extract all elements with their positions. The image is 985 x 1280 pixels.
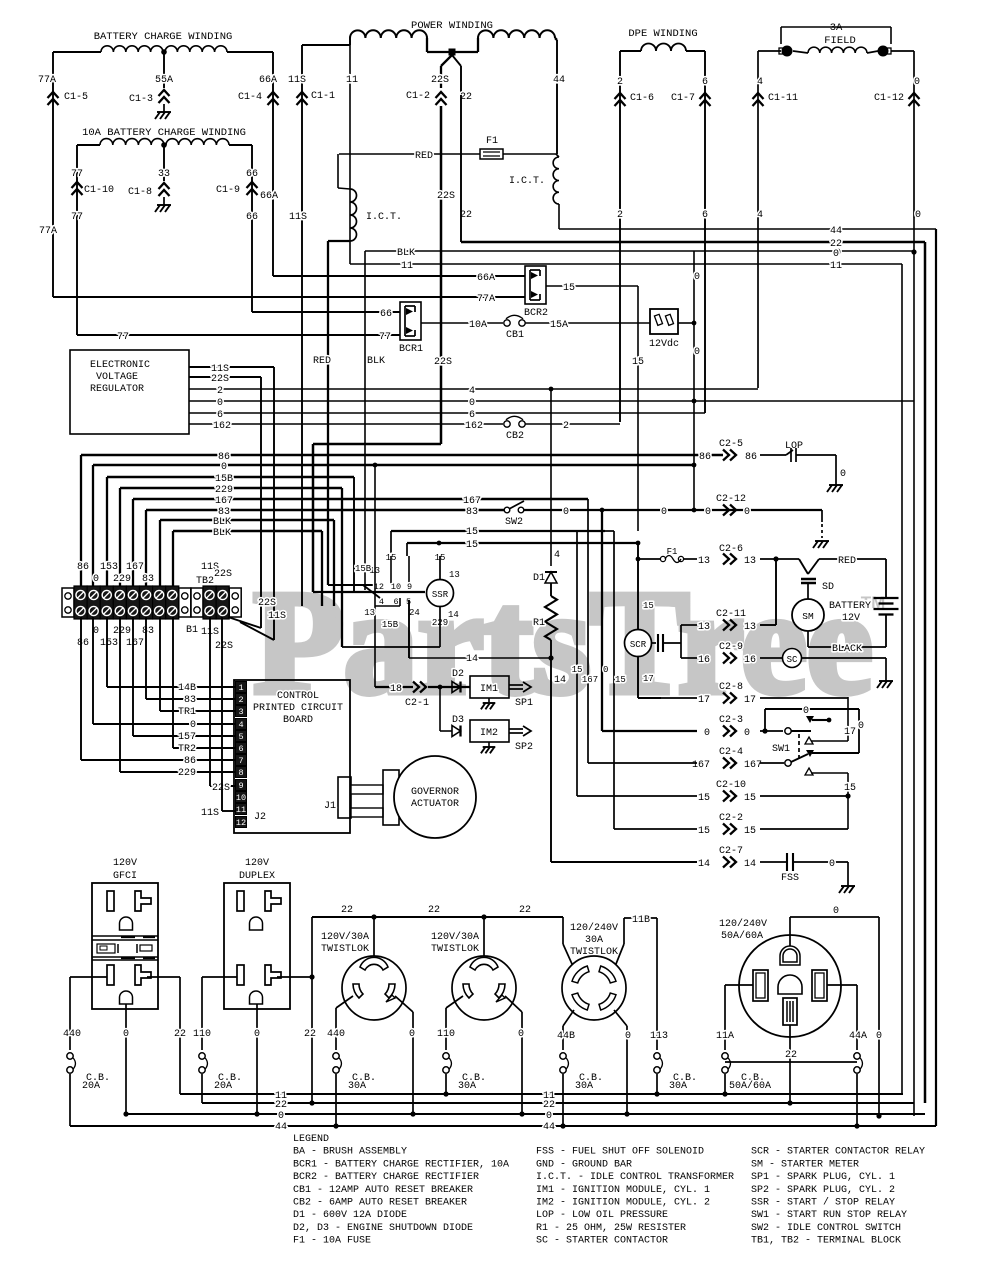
- svg-text:83: 83: [142, 626, 154, 637]
- wire 0 from 50A top: [789, 917, 791, 946]
- svg-text:J2: J2: [254, 812, 266, 823]
- svg-text:66A: 66A: [259, 75, 277, 86]
- wire 15 stub: [605, 530, 614, 532]
- svg-text:0: 0: [563, 507, 569, 518]
- svg-text:11A: 11A: [716, 1031, 734, 1042]
- svg-text:C1-10: C1-10: [84, 185, 114, 196]
- bus 15 upper: [391, 530, 605, 532]
- governor actuator linkage: [351, 785, 383, 794]
- svg-text:0: 0: [833, 249, 839, 260]
- wire 6 DPE right: [704, 51, 706, 413]
- rectifier BCR1: [400, 302, 421, 340]
- receptacle 120/240V 50A/60A body: [739, 935, 841, 1037]
- wire 15 from BCR2: [546, 285, 638, 287]
- svg-text:BCR1 - BATTERY CHARGE RECTIFIE: BCR1 - BATTERY CHARGE RECTIFIER, 10A: [293, 1159, 509, 1170]
- wire 17 from SCR to C2-8: [637, 657, 639, 699]
- svg-text:C2-2: C2-2: [719, 813, 743, 824]
- svg-text:33: 33: [158, 169, 170, 180]
- svg-text:66A: 66A: [477, 273, 495, 284]
- wire 4 to D1: [550, 389, 552, 566]
- svg-text:14B: 14B: [178, 683, 196, 694]
- svg-text:C1-5: C1-5: [64, 92, 88, 103]
- svg-text:77: 77: [71, 169, 83, 180]
- svg-text:D3: D3: [452, 715, 464, 726]
- svg-text:C1-12: C1-12: [874, 93, 904, 104]
- svg-text:BATTERY: BATTERY: [829, 601, 871, 612]
- svg-text:55A: 55A: [155, 75, 173, 86]
- svg-text:LOP - LOW OIL PRESSURE: LOP - LOW OIL PRESSURE: [536, 1210, 668, 1221]
- svg-text:15: 15: [466, 540, 478, 551]
- wire BLK fan 1: [160, 519, 334, 521]
- svg-text:120V: 120V: [113, 858, 137, 869]
- wire 0 from twistlok 3: [614, 1010, 627, 1026]
- svg-text:44: 44: [275, 1122, 287, 1133]
- svg-text:C1-11: C1-11: [768, 93, 798, 104]
- connector C1-10: [72, 182, 83, 188]
- wire 22 from GFCI: [147, 976, 180, 978]
- svg-text:I.C.T. - IDLE CONTROL TRANSFOR: I.C.T. - IDLE CONTROL TRANSFORMER: [536, 1172, 734, 1183]
- svg-text:7: 7: [238, 756, 243, 766]
- bus 22 receptacles: [312, 916, 563, 918]
- svg-text:167: 167: [582, 675, 598, 685]
- wire 83 fan with switch SW2: [146, 509, 505, 511]
- svg-text:0: 0: [803, 706, 809, 717]
- svg-text:C2-9: C2-9: [719, 642, 743, 653]
- spark plug SP1 arrow: [509, 684, 523, 686]
- svg-text:2: 2: [563, 421, 569, 432]
- breaker C.B. 50A/60A: [722, 1053, 728, 1059]
- wires TB1 to control board: [80, 617, 82, 760]
- svg-text:44: 44: [553, 75, 565, 86]
- receptacle 120V duplex body: [224, 883, 290, 1009]
- breaker C.B. 30A twistlok3: [560, 1053, 566, 1059]
- svg-text:153: 153: [100, 638, 118, 649]
- connector C1-9: [247, 182, 258, 188]
- svg-text:14: 14: [744, 859, 756, 870]
- svg-text:BLK: BLK: [397, 248, 415, 259]
- svg-text:22: 22: [304, 1029, 316, 1040]
- svg-text:15A: 15A: [550, 320, 568, 331]
- svg-text:11S: 11S: [289, 212, 307, 223]
- svg-text:10A BATTERY CHARGE WINDING: 10A BATTERY CHARGE WINDING: [82, 127, 246, 139]
- svg-text:9: 9: [238, 781, 243, 791]
- svg-text:BCR1: BCR1: [399, 344, 423, 355]
- svg-text:F1 - 10A FUSE: F1 - 10A FUSE: [293, 1236, 371, 1247]
- svg-text:17: 17: [643, 674, 654, 684]
- connector C1-8: [159, 183, 170, 189]
- svg-text:13: 13: [449, 570, 460, 580]
- ignition module IM1: [470, 676, 509, 698]
- svg-text:SC: SC: [787, 655, 798, 665]
- svg-text:14: 14: [448, 610, 459, 620]
- wire 22 from 50A bottom: [789, 1025, 791, 1103]
- svg-text:13: 13: [698, 556, 710, 567]
- wire 66 right leg: [229, 144, 252, 146]
- svg-text:16: 16: [698, 655, 710, 666]
- svg-text:BLK: BLK: [213, 517, 231, 528]
- wire 2 from EVR: [189, 388, 758, 390]
- connector J1: [338, 777, 351, 818]
- svg-text:CB1 - 12AMP AUTO RESET BREAKER: CB1 - 12AMP AUTO RESET BREAKER: [293, 1185, 473, 1196]
- svg-text:162: 162: [213, 421, 231, 432]
- wire 44A from 50A: [827, 984, 857, 986]
- wire BLK vertical: [364, 251, 366, 590]
- svg-text:86: 86: [699, 452, 711, 463]
- connector J2 pin strip: [236, 682, 247, 693]
- capacitor FSS: [786, 853, 788, 871]
- svg-text:BLK: BLK: [367, 356, 385, 367]
- connector C1-2: [436, 92, 447, 98]
- svg-text:BATTERY CHARGE WINDING: BATTERY CHARGE WINDING: [94, 31, 233, 43]
- svg-text:C2-3: C2-3: [719, 715, 743, 726]
- svg-text:30A: 30A: [575, 1081, 593, 1092]
- svg-text:22S: 22S: [434, 357, 452, 368]
- svg-text:229: 229: [113, 626, 131, 637]
- bus 44 bottom: [70, 1125, 936, 1127]
- wire 11S power winding left: [302, 44, 350, 46]
- wire 66A right leg of battery charge winding: [227, 51, 273, 53]
- spark plug SP2 arrow: [509, 728, 523, 730]
- svg-text:CB2 - 6AMP AUTO RESET BREAKER: CB2 - 6AMP AUTO RESET BREAKER: [293, 1198, 467, 1209]
- wire 0 from GFCI: [125, 1004, 127, 1114]
- switch SW1 mechanical link dashed: [798, 734, 800, 760]
- wire 11B from twistlok 3: [616, 944, 624, 964]
- 50A top D slot: [780, 946, 800, 965]
- 50A bottom slot: [783, 998, 797, 1025]
- connector C1-3: [159, 90, 170, 96]
- svg-text:6: 6: [469, 410, 475, 421]
- wire 24 from relay to D1 R1: [408, 600, 410, 658]
- wire 22S from EVR: [189, 376, 261, 378]
- svg-text:0: 0: [190, 720, 196, 731]
- wire 0 from 12Vdc: [678, 322, 694, 324]
- svg-text:F1: F1: [486, 136, 498, 147]
- ground C1-3: [163, 104, 165, 112]
- svg-text:30A: 30A: [669, 1081, 687, 1092]
- receptacle 120/240V 30A twistlok: [562, 956, 626, 1020]
- svg-text:RED: RED: [415, 151, 433, 162]
- svg-text:229: 229: [215, 485, 233, 496]
- svg-text:0: 0: [915, 210, 921, 221]
- svg-text:IM1 - IGNITION MODULE, CYL. 1: IM1 - IGNITION MODULE, CYL. 1: [536, 1185, 710, 1196]
- svg-text:CONTROL: CONTROL: [277, 691, 319, 702]
- ground C2-5: [829, 484, 843, 486]
- wire 0 field right: [891, 50, 914, 52]
- svg-text:18: 18: [390, 684, 402, 695]
- svg-text:13: 13: [744, 622, 756, 633]
- switch SW1 0 link: [764, 709, 766, 731]
- svg-text:0: 0: [469, 398, 475, 409]
- connector C1-11: [753, 93, 764, 99]
- svg-text:11: 11: [346, 75, 358, 86]
- connector C1-7: [700, 93, 711, 99]
- svg-text:SM: SM: [802, 611, 814, 622]
- terminal block TB1: [62, 588, 74, 617]
- svg-text:SCR: SCR: [630, 640, 647, 650]
- wire 13 up from C2-11: [775, 559, 777, 625]
- svg-text:83: 83: [184, 695, 196, 706]
- svg-text:SSR - START / STOP RELAY: SSR - START / STOP RELAY: [751, 1197, 895, 1209]
- svg-text:BCR2 - BATTERY CHARGE RECTIFIE: BCR2 - BATTERY CHARGE RECTIFIER: [293, 1172, 479, 1183]
- wire 44B from twistlok 3: [563, 1010, 574, 1026]
- svg-text:PRINTED CIRCUIT: PRINTED CIRCUIT: [253, 703, 343, 714]
- switch SW1 pole 2: [785, 760, 791, 766]
- svg-text:110: 110: [193, 1029, 211, 1040]
- svg-text:22: 22: [275, 1100, 287, 1111]
- svg-text:0: 0: [93, 574, 99, 585]
- starter contactor SC: [783, 649, 802, 668]
- svg-text:11B: 11B: [632, 915, 650, 926]
- svg-text:17: 17: [744, 695, 756, 706]
- svg-text:15: 15: [744, 793, 756, 804]
- svg-text:0: 0: [694, 347, 700, 358]
- svg-text:11: 11: [830, 261, 842, 272]
- svg-text:12: 12: [236, 818, 246, 828]
- ground C2-9: [879, 680, 893, 682]
- svg-text:15: 15: [744, 826, 756, 837]
- wire 33 center leg: [163, 145, 165, 181]
- svg-text:22S: 22S: [211, 374, 229, 385]
- wire 44 right leg power winding: [555, 38, 557, 40]
- connector C1-12: [909, 93, 920, 99]
- svg-text:0: 0: [704, 728, 710, 739]
- svg-text:30A: 30A: [348, 1081, 366, 1092]
- breaker C.B. 20A duplex: [199, 1053, 205, 1059]
- svg-text:C1-2: C1-2: [406, 91, 430, 102]
- wire 0 vertical to relay: [374, 465, 376, 606]
- wire 77 left leg: [77, 144, 100, 146]
- wire 15 vertical to C2-10: [576, 531, 578, 796]
- svg-text:D1: D1: [533, 573, 545, 584]
- relay SCR: [625, 630, 652, 657]
- wire 44 from ICT secondary: [558, 204, 560, 229]
- wire 15B into relay: [353, 477, 355, 592]
- wire 11 power winding: [349, 38, 351, 264]
- svg-text:C2-7: C2-7: [719, 846, 743, 857]
- svg-text:GOVERNOR: GOVERNOR: [411, 787, 459, 798]
- wire 0 from SW2 to C2-12: [524, 509, 822, 511]
- svg-text:0: 0: [661, 507, 667, 518]
- ground C2-12: [815, 540, 829, 542]
- wire 86 fan: [81, 454, 723, 456]
- transistor SD: [760, 558, 799, 560]
- connector C1-6: [615, 93, 626, 99]
- wire 77A left leg: [53, 51, 101, 53]
- svg-text:0: 0: [840, 469, 846, 480]
- svg-text:SP2: SP2: [515, 742, 533, 753]
- svg-text:167: 167: [744, 760, 762, 771]
- wire 15 vertical to C2-2: [613, 531, 615, 829]
- GFCI test reset buttons: [92, 935, 158, 937]
- svg-text:SSR: SSR: [432, 590, 449, 600]
- svg-text:2: 2: [238, 695, 243, 705]
- svg-text:FIELD: FIELD: [824, 35, 856, 47]
- svg-text:120/240V: 120/240V: [570, 922, 618, 934]
- svg-text:2: 2: [617, 77, 623, 88]
- wire 55A center leg: [163, 52, 165, 88]
- svg-text:20A: 20A: [214, 1081, 232, 1092]
- svg-text:22S: 22S: [437, 191, 455, 202]
- svg-text:162: 162: [465, 421, 483, 432]
- wire 11A from 50A: [725, 984, 753, 986]
- wire 0 fan: [93, 464, 694, 466]
- wire 15A from CB1 to 12Vdc: [525, 322, 650, 324]
- wire 11 bus top: [350, 263, 902, 265]
- svg-text:10: 10: [236, 793, 246, 803]
- svg-text:22S: 22S: [215, 641, 233, 652]
- svg-text:TB2: TB2: [196, 576, 214, 587]
- svg-text:167: 167: [126, 638, 144, 649]
- wire TB2 cell1 to PCB pin 10: [209, 617, 211, 786]
- svg-text:22S: 22S: [212, 783, 230, 794]
- svg-text:11S: 11S: [268, 611, 286, 622]
- svg-text:9: 9: [407, 582, 412, 592]
- brush right: [878, 46, 889, 57]
- svg-text:2: 2: [617, 210, 623, 221]
- GFCI lower outlet: [107, 965, 114, 985]
- wire TB2 cell2 to PCB pin 12: [221, 617, 223, 770]
- ground IM2: [488, 742, 490, 747]
- svg-text:157: 157: [178, 732, 196, 743]
- wire 18 to C2-1: [374, 606, 376, 687]
- svg-text:6: 6: [702, 77, 708, 88]
- svg-text:D1 - 600V 12A DIODE: D1 - 600V 12A DIODE: [293, 1210, 407, 1221]
- svg-text:SW1: SW1: [772, 744, 790, 755]
- breaker C.B. 30A 11B: [654, 1053, 660, 1059]
- svg-text:DPE WINDING: DPE WINDING: [628, 28, 697, 40]
- svg-text:SW2: SW2: [505, 517, 523, 528]
- wire BLK fan 2: [173, 530, 322, 532]
- relay SSR coil circle: [427, 580, 454, 607]
- breaker C.B. 30A twistlok1: [333, 1053, 339, 1059]
- svg-text:R1 - 25 OHM, 25W RESISTER: R1 - 25 OHM, 25W RESISTER: [536, 1223, 686, 1234]
- svg-text:50A/60A: 50A/60A: [721, 930, 763, 942]
- svg-text:FSS - FUEL SHUT OFF SOLENOID: FSS - FUEL SHUT OFF SOLENOID: [536, 1147, 704, 1158]
- svg-text:22: 22: [428, 905, 440, 916]
- node junction 55A: [161, 49, 167, 55]
- svg-text:167: 167: [126, 562, 144, 573]
- wire 4 field left: [758, 50, 781, 52]
- svg-text:22: 22: [174, 1029, 186, 1040]
- svg-text:3: 3: [238, 707, 243, 717]
- inductor power winding right: [478, 30, 555, 38]
- svg-text:15: 15: [698, 826, 710, 837]
- svg-text:229: 229: [113, 574, 131, 585]
- wire 10A from BCR1: [421, 322, 503, 324]
- svg-text:BCR2: BCR2: [524, 308, 548, 319]
- svg-text:0: 0: [744, 728, 750, 739]
- wire 229 fan: [120, 487, 342, 489]
- svg-text:66A: 66A: [260, 191, 278, 202]
- svg-text:66: 66: [246, 169, 258, 180]
- svg-text:RED: RED: [313, 356, 331, 367]
- wire 110 from twistlok 2: [446, 996, 463, 1008]
- wire BLACK: [807, 631, 809, 647]
- svg-text:CB2: CB2: [506, 431, 524, 442]
- wire RED to ICT: [339, 153, 556, 155]
- svg-text:120V/30A: 120V/30A: [321, 931, 369, 943]
- svg-text:15: 15: [563, 283, 575, 294]
- ground C1-8: [163, 197, 165, 205]
- svg-text:I.C.T.: I.C.T.: [366, 212, 402, 223]
- svg-text:SP2 - SPARK PLUG, CYL. 2: SP2 - SPARK PLUG, CYL. 2: [751, 1185, 895, 1196]
- svg-text:IM2: IM2: [480, 728, 498, 739]
- svg-text:13: 13: [698, 622, 710, 633]
- wire 229 horizontal to SSR: [341, 488, 343, 647]
- svg-text:5: 5: [238, 732, 243, 742]
- box control printed circuit board: [234, 680, 350, 833]
- row C2-6 with fuse F1: [638, 558, 661, 560]
- transformer ICT primary: [337, 154, 339, 188]
- wire 2 from CB2: [525, 423, 620, 425]
- svg-text:15: 15: [466, 527, 478, 538]
- inductor battery charge winding: [101, 46, 163, 52]
- svg-text:10: 10: [391, 582, 401, 592]
- svg-text:SW2 - IDLE CONTROL SWITCH: SW2 - IDLE CONTROL SWITCH: [751, 1223, 901, 1234]
- svg-text:3A: 3A: [830, 22, 843, 34]
- connector C1-4: [268, 92, 279, 98]
- wire 167 vertical to C2-4: [587, 499, 589, 763]
- svg-text:22: 22: [785, 1050, 797, 1061]
- svg-text:22S: 22S: [431, 75, 449, 86]
- rectifier BCR2: [525, 266, 546, 304]
- svg-text:110: 110: [437, 1029, 455, 1040]
- wire 22 from duplex: [277, 976, 312, 978]
- svg-text:167: 167: [692, 760, 710, 771]
- svg-text:0: 0: [254, 1029, 260, 1040]
- svg-text:D2: D2: [452, 669, 464, 680]
- svg-text:C2-8: C2-8: [719, 682, 743, 693]
- bus 0 bottom: [126, 1113, 925, 1115]
- breaker C.B. 30A twistlok2: [443, 1053, 449, 1059]
- connector C2-1: [413, 682, 419, 693]
- wire 167 fan: [133, 498, 588, 500]
- svg-text:66: 66: [246, 212, 258, 223]
- brush left: [782, 46, 793, 57]
- svg-text:167: 167: [463, 496, 481, 507]
- svg-text:15: 15: [643, 601, 654, 611]
- wire 66 to BCR1: [252, 311, 400, 313]
- svg-text:14: 14: [698, 859, 710, 870]
- svg-text:C2-1: C2-1: [405, 698, 429, 709]
- svg-text:I.C.T.: I.C.T.: [509, 176, 545, 187]
- svg-text:0: 0: [833, 906, 839, 917]
- resistor R1: [550, 583, 552, 596]
- svg-text:J1: J1: [324, 801, 336, 812]
- svg-text:VOLTAGE: VOLTAGE: [96, 372, 138, 383]
- receptacle twistlok 1: [373, 917, 375, 957]
- svg-text:C2-5: C2-5: [719, 439, 743, 450]
- receptacle 120V GFCI body: [92, 883, 158, 1009]
- svg-text:167: 167: [215, 496, 233, 507]
- svg-text:C1-7: C1-7: [671, 93, 695, 104]
- svg-text:0: 0: [694, 272, 700, 283]
- svg-text:0: 0: [876, 1031, 882, 1042]
- svg-text:113: 113: [650, 1031, 668, 1042]
- svg-text:SC - STARTER CONTACTOR: SC - STARTER CONTACTOR: [536, 1236, 668, 1247]
- svg-text:17: 17: [698, 695, 710, 706]
- svg-text:RED: RED: [838, 556, 856, 567]
- svg-text:22: 22: [519, 905, 531, 916]
- fuse F1 on red wire: [480, 149, 503, 159]
- svg-text:0: 0: [217, 398, 223, 409]
- svg-text:ELECTRONIC: ELECTRONIC: [90, 360, 150, 371]
- svg-text:0: 0: [914, 77, 920, 88]
- svg-text:440: 440: [63, 1029, 81, 1040]
- svg-text:BLK: BLK: [213, 528, 231, 539]
- wire from ICT primary bottom: [328, 240, 350, 242]
- svg-text:C1-4: C1-4: [238, 92, 262, 103]
